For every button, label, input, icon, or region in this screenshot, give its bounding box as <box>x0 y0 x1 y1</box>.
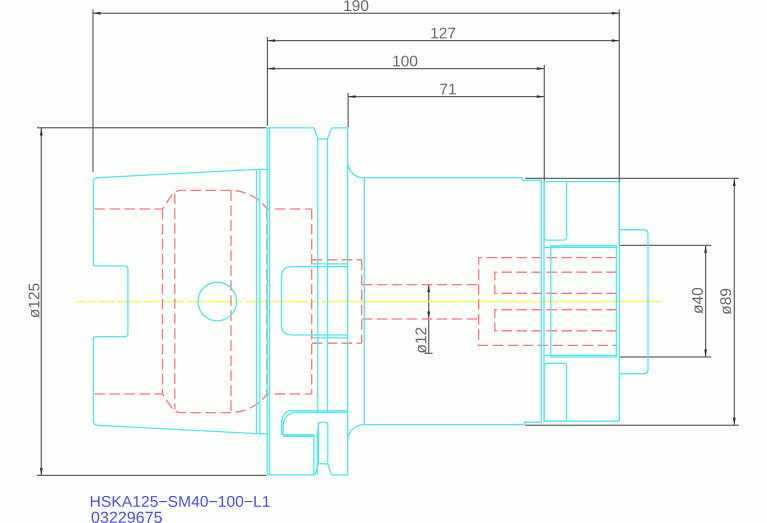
flange window lower inner edge <box>313 337 348 339</box>
title line 1 <box>91 496 270 507</box>
drive hole circle <box>198 282 237 321</box>
step ring right edge <box>543 180 545 422</box>
arrow dia40 top <box>704 246 707 253</box>
flange window rounded rect <box>282 267 348 335</box>
dim 127 line <box>267 40 619 42</box>
hidden collet inner lower slot <box>495 310 617 331</box>
arrow dia40 bottom <box>704 350 707 357</box>
wrench slot top <box>544 182 566 241</box>
bottom tooth floor <box>319 463 328 465</box>
flange bottom edge left <box>268 474 315 476</box>
flange window upper inner edge <box>313 263 348 265</box>
arrow 190 right <box>612 12 619 15</box>
arrow dia12 top <box>427 285 430 292</box>
dim 190/127 right extension line <box>618 10 620 246</box>
drive slot lower edge <box>294 412 348 414</box>
drive slot right wall outer <box>313 435 315 475</box>
collet visible rect <box>551 246 617 357</box>
neck top edge <box>257 168 268 170</box>
taper body outline <box>93 169 256 433</box>
drive slot floor upper <box>282 434 314 436</box>
bottom tooth <box>315 422 332 475</box>
nut right face <box>618 182 620 422</box>
dim dia40 top extension line <box>619 244 711 246</box>
centerline <box>75 301 661 303</box>
dim dia125 top extension line <box>37 127 267 129</box>
dim 190 left extension line <box>92 10 94 173</box>
title line 2 <box>92 512 162 523</box>
hidden taper bore bottom <box>95 394 312 413</box>
drive slot corner inner arc <box>283 413 294 435</box>
taper end second edge <box>259 169 261 434</box>
hidden bore vertical x231 <box>230 190 232 412</box>
hidden collet inner upper slot <box>495 272 617 293</box>
hidden dia30 bore end vertical <box>361 260 363 343</box>
flange left face chamfer edge <box>269 128 271 475</box>
dim dia40 bottom extension line <box>619 356 711 358</box>
text 71 <box>440 84 456 95</box>
dim dia89 bottom extension line <box>525 424 739 426</box>
drive slot floor lower <box>283 435 314 437</box>
hidden taper bore top <box>95 190 312 209</box>
text dia89 <box>720 289 731 315</box>
dim 190 line <box>93 12 619 14</box>
dim dia89 line <box>733 178 735 425</box>
cylinder bottom edge <box>364 422 542 424</box>
text 100 <box>393 56 417 67</box>
hidden dia30 bore bottom <box>312 342 362 344</box>
end block <box>620 230 649 374</box>
hidden flange bore left <box>266 209 268 394</box>
arrow 190 left <box>93 12 100 15</box>
dim dia40 line <box>705 245 707 357</box>
hidden dia12 bore bottom <box>362 318 479 320</box>
hidden dia30 bore top <box>312 259 362 261</box>
flange bottom edge right <box>331 474 347 476</box>
flange left face outer <box>267 128 270 475</box>
dim dia12 text foot line <box>425 352 433 354</box>
taper end face <box>256 169 258 433</box>
step ring left edge <box>540 180 542 422</box>
V-groove cylinder left edge <box>317 139 319 413</box>
flange right face <box>347 128 349 475</box>
hidden bore vertical x162 <box>162 209 164 394</box>
arrow dia89 top <box>733 179 736 186</box>
hidden flange bore right <box>311 209 313 394</box>
neck bottom edge <box>257 433 268 435</box>
dim 127/100 left extension line <box>266 37 268 126</box>
V-groove cylinder right edge <box>327 139 329 413</box>
collet face upper edge <box>544 246 616 248</box>
drive slot right wall inner <box>316 436 318 475</box>
arrow dia12 bottom <box>427 312 430 319</box>
wrench slot bottom <box>544 363 566 421</box>
text 190 <box>344 0 368 11</box>
hidden collet pocket outline <box>479 258 617 346</box>
text dia40 <box>692 288 703 314</box>
dim dia89 top extension line <box>525 177 739 179</box>
dim 100 line <box>267 68 544 70</box>
arrow dia89 bottom <box>733 418 736 425</box>
flange top edge with V-groove <box>268 128 348 139</box>
text dia125 <box>28 283 39 317</box>
arrow 100 right <box>537 67 544 70</box>
dim dia125 line <box>40 128 42 476</box>
fillet tangent edge <box>363 178 365 425</box>
drive slot diagonal edge <box>317 422 318 436</box>
arrow 71 right <box>537 95 544 98</box>
drive slot upper edge <box>288 410 348 412</box>
nut bottom edge <box>544 420 619 422</box>
arrow 127 right <box>612 39 619 42</box>
collet face lower edge <box>544 354 616 356</box>
fillet bottom <box>348 425 364 441</box>
text 127 <box>431 28 455 39</box>
arrow dia125 bottom <box>40 468 43 475</box>
cylinder top edge <box>364 178 541 181</box>
dim 100/71 right extension line <box>543 65 545 181</box>
nut top edge <box>544 181 619 183</box>
dim 71 left extension line <box>347 93 349 127</box>
arrow 71 left <box>348 95 355 98</box>
hidden dia12 bore top <box>362 284 479 286</box>
fillet top <box>348 162 364 178</box>
drive slot corner outer arc <box>281 411 288 435</box>
arrow 127 left <box>268 39 275 42</box>
dim 71 line <box>348 96 544 98</box>
dim dia12 line <box>428 285 430 354</box>
arrow dia125 top <box>40 128 43 135</box>
dim dia125 bottom extension line <box>37 474 267 476</box>
text dia12 <box>415 328 426 354</box>
hidden bore vertical x174 <box>174 193 176 409</box>
arrow 100 left <box>268 67 275 70</box>
